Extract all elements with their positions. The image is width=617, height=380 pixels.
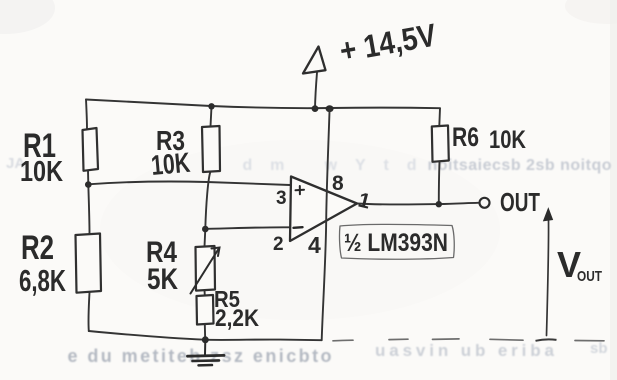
bleed-through text row 1 (back of page) bbox=[6, 155, 613, 174]
resistor R5 body bbox=[197, 295, 214, 325]
resistor R4 body (trimmer) bbox=[196, 246, 216, 291]
wire R2 bottom lead bbox=[88, 293, 89, 332]
junction ground node bbox=[202, 336, 209, 343]
wire V+ vertical through line (pin 8 to pin 4 rail) bbox=[322, 109, 330, 340]
svg-text:2,2K: 2,2K bbox=[215, 305, 260, 332]
terminal OUT circle bbox=[480, 198, 490, 208]
op-amp minus input marker bbox=[294, 226, 303, 229]
wire R2 top lead bbox=[88, 185, 89, 234]
wire R5 bottom lead bbox=[204, 324, 206, 340]
svg-text:R6: R6 bbox=[452, 122, 479, 152]
supply +14.5V triangle symbol bbox=[303, 47, 326, 74]
trimmer R4 arrow bbox=[191, 248, 220, 294]
svg-text:OUT: OUT bbox=[500, 187, 540, 217]
wire bottom rail dashed continuation bbox=[333, 339, 604, 341]
Vout arrow bottom tick bbox=[536, 339, 557, 340]
op-amp U1 triangle bbox=[290, 177, 357, 242]
resistor R1 body bbox=[83, 128, 99, 171]
wire R4 top lead bbox=[204, 229, 207, 247]
wire node B to pin 2 bbox=[205, 227, 289, 229]
wire node A to pin 3 bbox=[88, 181, 290, 185]
bleed-through text row 2 (bottom) bbox=[68, 340, 608, 366]
label half LM393N box bbox=[340, 224, 455, 259]
svg-text:2: 2 bbox=[273, 234, 284, 255]
svg-text:sb: sb bbox=[590, 340, 608, 357]
wire R1 top lead bbox=[86, 100, 87, 130]
Vout arrow head bbox=[544, 209, 553, 221]
wire output from pin 1 bbox=[357, 203, 478, 205]
wire supply stem bbox=[315, 73, 317, 109]
op-amp plus input marker bbox=[296, 186, 305, 194]
junction node A bbox=[85, 181, 92, 188]
svg-text:4: 4 bbox=[308, 232, 321, 258]
junction node B bbox=[202, 226, 209, 233]
svg-text:10K: 10K bbox=[20, 156, 63, 188]
svg-text:OUT: OUT bbox=[577, 268, 602, 285]
ground symbol bbox=[188, 340, 225, 366]
wire top rail bbox=[86, 100, 440, 109]
resistor R6 body bbox=[432, 126, 449, 162]
svg-text:5K: 5K bbox=[147, 263, 178, 296]
junction output node bbox=[436, 201, 442, 207]
svg-text:8: 8 bbox=[332, 172, 344, 195]
junction pin8 branch node bbox=[326, 105, 334, 112]
wire R6 bottom lead bbox=[438, 162, 441, 204]
svg-text:6,8K: 6,8K bbox=[19, 263, 66, 298]
wire bottom rail bbox=[89, 331, 322, 340]
wire R4 to R5 link bbox=[204, 290, 206, 296]
resistor R2 body bbox=[76, 234, 102, 293]
svg-text:3: 3 bbox=[276, 188, 287, 209]
svg-text:noitsaiecsb 2sb noitqo: noitsaiecsb 2sb noitqo bbox=[428, 157, 613, 174]
junction R3 top bbox=[208, 103, 214, 109]
wire R3 bottom lead to node B bbox=[205, 172, 210, 229]
resistor R3 body bbox=[202, 126, 220, 172]
svg-text:10K: 10K bbox=[489, 126, 526, 154]
wire R6 top lead bbox=[438, 108, 441, 126]
svg-text:½ LM393N: ½ LM393N bbox=[344, 229, 448, 257]
svg-text:10K: 10K bbox=[150, 147, 192, 181]
junction supply node bbox=[312, 105, 319, 112]
svg-text:R2: R2 bbox=[21, 229, 54, 267]
wire R1 bottom lead bbox=[87, 171, 89, 185]
wire Vout measure arrow line bbox=[547, 219, 549, 336]
wire R3 top lead bbox=[211, 107, 212, 127]
